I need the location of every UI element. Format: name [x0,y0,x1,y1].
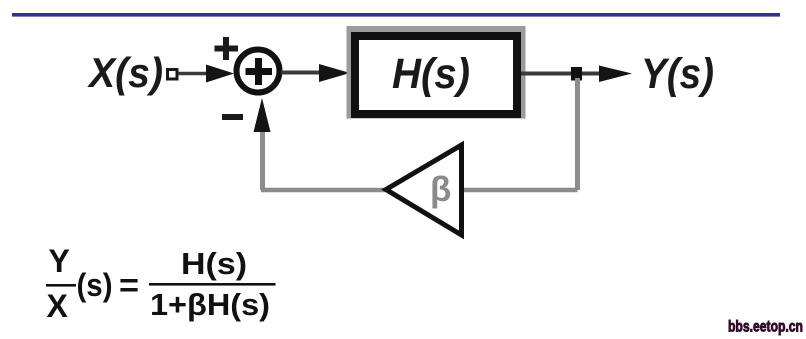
svg-text:=: = [119,267,139,303]
block H(s) [355,36,517,114]
svg-text:X: X [47,288,69,324]
plus sign (summer input polarity) [215,37,239,60]
formula: left fraction bar [46,284,76,287]
op-amp summing junction [237,50,280,93]
junction dot [571,67,582,81]
wire feedback: horizontal run [261,188,578,193]
arrowhead to Y(s) [599,66,632,83]
amplifier beta triangle [386,145,462,235]
top horizontal rule [12,13,780,17]
node input terminal [168,70,178,80]
block H(s) shadow [347,26,526,119]
minus sign (feedback polarity) [222,114,243,120]
arrowhead into summer [206,65,234,83]
formula: right fraction bar [149,283,276,286]
arrowhead into summer bottom [254,98,271,132]
svg-text:Y(s): Y(s) [641,50,714,98]
svg-text:β: β [430,170,451,209]
wire input to summer [178,72,215,76]
svg-text:Y: Y [49,243,70,279]
svg-text:H(s): H(s) [392,50,470,98]
svg-text:bbs.eetop.cn: bbs.eetop.cn [728,319,803,336]
svg-text:H(s): H(s) [181,246,247,281]
arrowhead into H(s) [319,64,350,82]
wire feedback: down from junction [575,78,580,190]
svg-text:(s): (s) [77,267,113,303]
wire feedback: up to summer [260,126,265,190]
wire H(s) to output node [521,72,600,76]
wire summer to H(s) [281,71,322,75]
svg-text:1+βH(s): 1+βH(s) [150,287,270,322]
svg-text:X(s): X(s) [87,49,163,96]
